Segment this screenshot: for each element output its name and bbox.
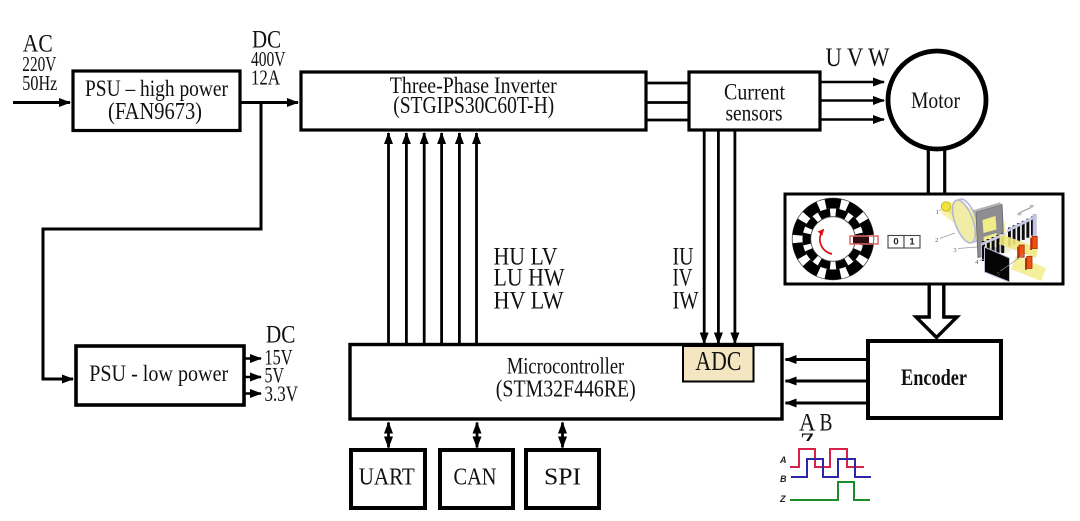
svg-text:UART: UART bbox=[359, 465, 415, 491]
svg-text:sensors: sensors bbox=[726, 101, 783, 126]
svg-text:Motor: Motor bbox=[911, 88, 960, 113]
svg-text:IW: IW bbox=[673, 288, 699, 315]
svg-text:12A: 12A bbox=[251, 66, 281, 90]
svg-text:1: 1 bbox=[936, 209, 939, 216]
svg-text:(STGIPS30C60T-H): (STGIPS30C60T-H) bbox=[393, 93, 554, 119]
svg-text:50Hz: 50Hz bbox=[22, 71, 57, 95]
svg-text:5: 5 bbox=[997, 271, 1000, 278]
svg-text:1: 1 bbox=[909, 237, 915, 248]
svg-text:ADC: ADC bbox=[695, 346, 741, 376]
svg-text:PSU - low power: PSU - low power bbox=[89, 361, 228, 386]
svg-text:Z: Z bbox=[779, 494, 786, 504]
svg-text:PSU – high power: PSU – high power bbox=[85, 76, 228, 101]
svg-text:3.3V: 3.3V bbox=[265, 381, 299, 406]
svg-text:3: 3 bbox=[953, 247, 956, 254]
svg-text:U V W: U V W bbox=[826, 43, 890, 72]
svg-text:SPI: SPI bbox=[544, 465, 581, 491]
svg-text:HV LW: HV LW bbox=[494, 288, 564, 315]
svg-text:B: B bbox=[780, 474, 787, 484]
svg-text:B: B bbox=[820, 410, 833, 437]
svg-text:Encoder: Encoder bbox=[901, 365, 967, 391]
svg-text:0: 0 bbox=[893, 237, 898, 248]
svg-text:(STM32F446RE): (STM32F446RE) bbox=[496, 376, 636, 403]
svg-text:(FAN9673): (FAN9673) bbox=[108, 99, 202, 125]
svg-text:A: A bbox=[779, 455, 787, 465]
svg-text:CAN: CAN bbox=[454, 465, 497, 491]
svg-text:2: 2 bbox=[935, 237, 938, 244]
